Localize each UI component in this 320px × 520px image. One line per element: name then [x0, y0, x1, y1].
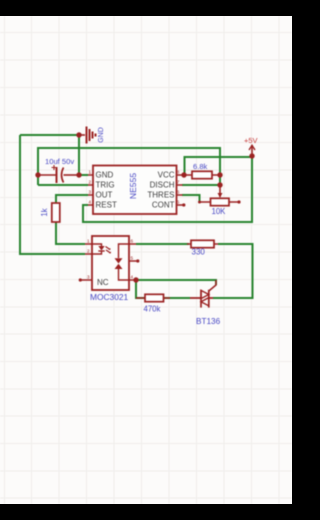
top black bar — [0, 0, 292, 16]
svg-text:OUT: OUT — [96, 191, 113, 200]
555 pin stubs right — [177, 175, 183, 205]
svg-text:5: 5 — [177, 200, 180, 205]
optocoupler U2 MOC3021 body — [81, 236, 137, 290]
svg-text:8: 8 — [177, 170, 180, 175]
svg-text:470k: 470k — [144, 305, 161, 314]
svg-text:MOC3021: MOC3021 — [90, 292, 129, 302]
wire GND top rail — [20, 134, 79, 136]
junction dots — [35, 132, 254, 282]
wire 1k bottom to MOC pin1 — [56, 222, 85, 244]
svg-text:THRES: THRES — [147, 191, 174, 200]
svg-text:330: 330 — [192, 248, 206, 257]
+5V supply symbol — [249, 145, 255, 156]
wire cap right to 555 GND pin — [79, 174, 88, 176]
svg-text:6: 6 — [131, 239, 134, 244]
svg-text:TRIG: TRIG — [96, 181, 115, 190]
svg-text:2: 2 — [87, 249, 90, 254]
wire +5V down and REST feed — [83, 156, 252, 222]
wire GND vertical to cap right — [78, 135, 80, 175]
MOC internal triac — [119, 244, 130, 280]
ground symbol — [79, 127, 96, 144]
wire 6.8k right to DISCH junction — [219, 175, 221, 185]
svg-text:6: 6 — [177, 190, 180, 195]
resistor R5 470k — [136, 294, 170, 301]
svg-text:REST: REST — [96, 201, 117, 210]
svg-text:NE555: NE555 — [128, 173, 138, 199]
555 pin names — [96, 171, 175, 210]
svg-text:6.8k: 6.8k — [193, 162, 208, 171]
svg-text:GND: GND — [96, 171, 114, 180]
svg-text:1k: 1k — [40, 208, 49, 216]
svg-text:BT136: BT136 — [196, 317, 221, 326]
wire 470k right to triac MT1 — [163, 297, 190, 299]
open pin end dots — [79, 278, 82, 281]
resistor R1 1k — [52, 203, 60, 222]
wire 330 right to triac MT2 — [213, 244, 253, 298]
MOC internal LED — [92, 244, 102, 246]
wire cap-left net top: x38 up, across, down to 6.8k right — [38, 148, 220, 185]
capacitor C1 10uf 50v — [38, 165, 79, 183]
wire MOC pin4 down to 470k — [136, 280, 145, 298]
svg-text:1: 1 — [87, 239, 90, 244]
wire GND left rail — [20, 135, 85, 254]
svg-text:5: 5 — [131, 256, 134, 261]
op IC U1 NE555 body — [88, 166, 183, 215]
wire TRIG row — [38, 184, 88, 186]
potentiometer R3 10K — [200, 186, 239, 206]
svg-text:7: 7 — [177, 180, 180, 185]
svg-text:10K: 10K — [212, 207, 227, 216]
svg-text:CONT: CONT — [152, 201, 175, 210]
wire MOC pin4 to gate riser — [136, 280, 216, 285]
resistor R4 330 — [187, 240, 218, 247]
svg-text:2: 2 — [89, 180, 92, 185]
svg-text:+5V: +5V — [244, 136, 258, 145]
svg-text:4: 4 — [131, 275, 134, 280]
svg-text:1: 1 — [89, 170, 92, 175]
svg-text:3: 3 — [87, 275, 90, 280]
wire DISCH row — [182, 184, 220, 186]
resistor R2 6.8k — [184, 171, 220, 178]
bottom black bar — [0, 504, 292, 520]
svg-text:NC: NC — [97, 278, 109, 287]
svg-text:3: 3 — [89, 190, 92, 195]
555 pin stubs left — [88, 175, 93, 205]
svg-text:VCC: VCC — [158, 171, 175, 180]
wire THRES to pot left — [182, 195, 200, 202]
svg-text:GND: GND — [98, 127, 105, 143]
wire VCC riser — [185, 157, 253, 175]
svg-text:10uf 50v: 10uf 50v — [45, 157, 74, 166]
svg-text:DISCH: DISCH — [150, 181, 175, 190]
wire OUT to 1k top — [56, 195, 88, 203]
wire MOC pin6 to 330 — [136, 243, 189, 245]
triac T1 BT136 — [190, 280, 216, 308]
svg-text:4: 4 — [89, 200, 92, 205]
pin numbers — [87, 170, 180, 280]
